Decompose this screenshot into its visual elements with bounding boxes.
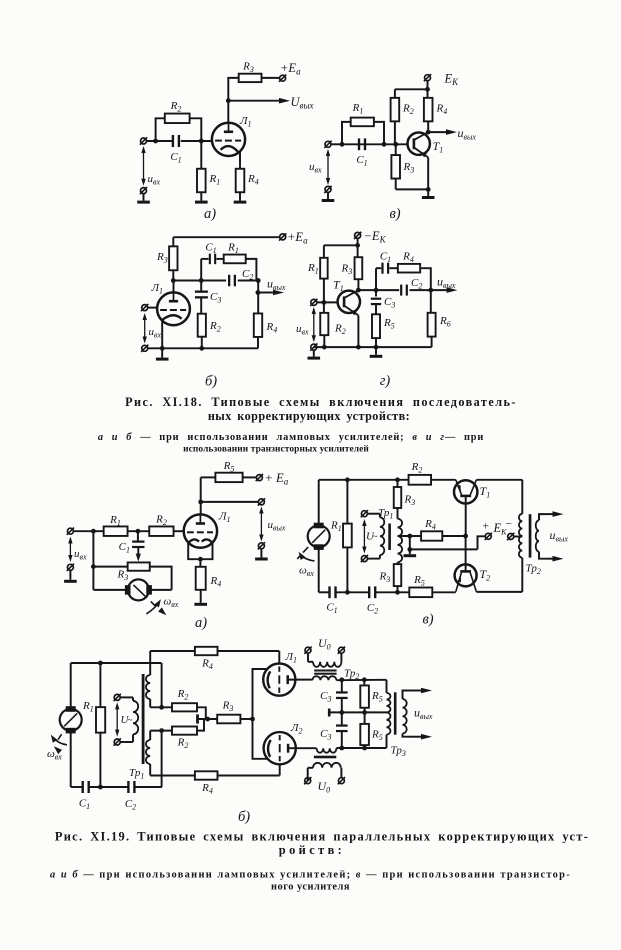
wire C2 to output node xyxy=(238,280,259,282)
node ground rail xyxy=(407,547,412,552)
svg-text:R2: R2 xyxy=(177,737,189,751)
anode lead xyxy=(173,281,175,293)
svg-text:R5: R5 xyxy=(223,460,235,474)
U0 lower winding xyxy=(307,768,309,781)
u_out arrow xyxy=(260,512,262,537)
node R5 upper top xyxy=(362,677,367,682)
L1 grid lead xyxy=(278,651,280,664)
wire C3 to R5 xyxy=(375,305,377,315)
wire C1 to R4 xyxy=(389,267,398,269)
svg-text:R1: R1 xyxy=(227,242,239,256)
capacitor C2 xyxy=(368,586,370,598)
u_in arrow xyxy=(327,154,329,180)
capacitor C1 xyxy=(209,254,211,265)
cathode column up xyxy=(253,669,268,719)
svg-text:+: + xyxy=(483,521,490,533)
wire R2 to grid node xyxy=(190,118,202,141)
wire R3 column top xyxy=(395,144,397,154)
node mid C3 xyxy=(339,710,344,715)
svg-text:T2: T2 xyxy=(480,567,491,583)
resistor R3 xyxy=(217,715,240,724)
resistor R4 xyxy=(421,531,442,540)
resistor R1 xyxy=(197,169,206,193)
node bases xyxy=(463,534,468,539)
output row xyxy=(201,501,259,503)
capacitor C1 xyxy=(172,135,174,147)
wire gen row left xyxy=(93,589,128,591)
wire Ek minus to tap xyxy=(514,536,523,538)
node emitter bottom xyxy=(356,345,361,350)
node collector/output xyxy=(426,130,431,135)
ground mid bottom xyxy=(375,347,377,355)
svg-text:U0: U0 xyxy=(318,779,331,795)
capacitor C3 xyxy=(371,298,381,300)
Tr2 right winding xyxy=(536,520,539,551)
svg-text:R3: R3 xyxy=(341,263,353,277)
wire gen row right xyxy=(149,589,172,591)
cathode column down xyxy=(253,719,268,759)
lower coil row xyxy=(150,730,172,732)
Tr2 core bar xyxy=(529,514,532,557)
wire R3 row right xyxy=(150,567,172,590)
bottom rail seg4 xyxy=(432,591,456,593)
ground under R4 xyxy=(234,201,247,204)
wire top rail down to R1 xyxy=(323,245,325,257)
wire R5 to bottom rail xyxy=(375,338,377,347)
ground under R1 xyxy=(195,201,208,204)
node input/R3 column xyxy=(91,529,96,534)
wire R2 to grid xyxy=(174,530,185,532)
resistor R5 xyxy=(409,588,432,598)
svg-text:б): б) xyxy=(238,809,250,825)
node R3 bottom xyxy=(395,590,400,595)
node R1 bridge left xyxy=(340,142,345,147)
node C1 top xyxy=(136,529,141,534)
generator column top xyxy=(70,663,72,709)
svg-text:Л1: Л1 xyxy=(285,651,297,665)
svg-text:T1: T1 xyxy=(333,278,344,294)
ground under R4 xyxy=(200,590,202,603)
svg-text:R5: R5 xyxy=(371,690,383,704)
Tr1 core bar xyxy=(388,524,391,551)
lower rail to Tr3 xyxy=(336,747,386,749)
svg-text:R2: R2 xyxy=(209,320,221,334)
svg-text:R4: R4 xyxy=(436,103,448,117)
svg-text:г): г) xyxy=(380,373,391,389)
top rail right xyxy=(476,479,522,481)
svg-text:+Eа: +Eа xyxy=(287,230,308,246)
U~ arrow xyxy=(116,707,118,731)
wire C3 upper column xyxy=(341,680,343,692)
wire C3 column xyxy=(200,281,202,292)
capacitor C2 xyxy=(400,285,402,296)
wire grid node to tube grid xyxy=(181,140,212,142)
bottom rail right xyxy=(476,591,522,593)
svg-text:C2: C2 xyxy=(411,277,422,291)
triode U1 (L1) xyxy=(212,123,245,156)
capacitor C2 xyxy=(228,275,230,287)
svg-text:+ Eа: + Eа xyxy=(265,471,289,487)
node R5 bottom xyxy=(374,345,379,350)
wire bridge left up to R2 xyxy=(156,118,165,141)
base bar of T1 xyxy=(343,296,346,307)
wire tap column xyxy=(161,731,163,787)
wire input to node xyxy=(73,530,103,532)
generator (omega in) xyxy=(308,525,330,547)
capacitor C1 xyxy=(328,586,330,598)
bottom R4 row left xyxy=(150,775,195,777)
bottom rail wire xyxy=(396,188,429,190)
svg-text:Тр1: Тр1 xyxy=(129,767,144,781)
cathode lead down xyxy=(161,321,163,348)
wire R4 to bottom rail xyxy=(257,337,259,348)
Tr3 left winding lower xyxy=(387,712,391,734)
resistor R3 xyxy=(239,74,262,82)
node C3 upper top xyxy=(339,677,344,682)
svg-text:uвх: uвх xyxy=(148,173,161,187)
base bar of T1 xyxy=(460,495,471,498)
wire to left winding top xyxy=(120,696,133,698)
svg-text:uвых: uвых xyxy=(267,277,286,293)
node R3 top xyxy=(395,477,400,482)
resistor R5 xyxy=(215,473,242,482)
wire winding bottom to term xyxy=(367,558,380,560)
node anode/output row xyxy=(198,500,203,505)
svg-text:Рис. XI.19. Типовые схемы вклю: Рис. XI.19. Типовые схемы включения пара… xyxy=(55,830,589,844)
svg-text:U0: U0 xyxy=(318,636,331,652)
wire to R5 xyxy=(201,476,216,478)
svg-text:R2: R2 xyxy=(411,461,423,475)
node tap xyxy=(407,534,412,539)
svg-text:~: ~ xyxy=(373,532,378,542)
emitter line of T1 xyxy=(456,480,462,495)
node R1 top xyxy=(98,661,103,666)
input terminal xyxy=(325,141,331,147)
wire C1 up xyxy=(137,531,139,541)
wire input to C1 xyxy=(147,140,172,142)
capacitor C1 xyxy=(132,541,144,543)
resistor R1 xyxy=(343,524,352,548)
svg-text:R4: R4 xyxy=(402,251,414,265)
ground under input xyxy=(143,194,145,201)
svg-text:R1: R1 xyxy=(109,514,121,528)
emitter line of T1 xyxy=(415,148,429,158)
svg-text:T1: T1 xyxy=(433,139,444,155)
node R3 right xyxy=(250,717,255,722)
wire R2 upper to node xyxy=(197,707,206,719)
wire output column xyxy=(257,281,259,314)
wire R1 branch right down xyxy=(246,259,257,281)
svg-text:C3: C3 xyxy=(210,291,221,305)
node output top xyxy=(256,278,261,283)
svg-text:C3: C3 xyxy=(320,728,331,742)
node R2 bottom xyxy=(199,346,204,351)
svg-text:R1: R1 xyxy=(307,262,319,276)
svg-text:Uвых: Uвых xyxy=(291,95,314,111)
dashed rotation arrow xyxy=(303,547,308,553)
svg-text:−: − xyxy=(506,519,513,531)
svg-text:R5: R5 xyxy=(383,317,395,331)
emitter arrowhead T2 xyxy=(457,576,461,582)
capacitor C1 xyxy=(381,263,383,274)
dashed rotation arrow xyxy=(58,734,62,740)
node base/R3 junction xyxy=(393,142,398,147)
resistor R3 lower xyxy=(394,564,402,586)
input lower terminal xyxy=(141,188,147,194)
svg-text:R2: R2 xyxy=(155,514,167,528)
Tr3 right winding xyxy=(403,699,407,734)
generator column top xyxy=(318,480,320,526)
capacitor C3 lower xyxy=(336,724,348,726)
emitter line of T1 xyxy=(345,306,359,315)
Tr3 output bottom xyxy=(403,734,410,737)
wire R6 column xyxy=(430,290,432,313)
wire R1 column bottom xyxy=(346,547,348,592)
wire R1 to node xyxy=(128,530,150,532)
bottom rail seg3 xyxy=(375,591,409,593)
stub bar xyxy=(196,714,199,723)
wire R3 to bottom rail xyxy=(395,179,397,189)
wire R1 to base node xyxy=(323,279,325,303)
svg-text:Тр2: Тр2 xyxy=(526,563,541,577)
node R5 lower bottom xyxy=(362,746,367,751)
Tr2 anode winding xyxy=(312,676,336,680)
resistor R1 xyxy=(104,526,128,536)
output lower terminal xyxy=(258,543,264,549)
Tr1 upper terminal xyxy=(114,694,120,700)
wire R5 to +Ea xyxy=(243,476,257,478)
resistor R1 xyxy=(320,258,328,279)
resistor R3 xyxy=(128,562,150,570)
svg-text:~: ~ xyxy=(128,715,133,725)
wire C3 column xyxy=(375,290,377,296)
svg-text:C1: C1 xyxy=(205,242,216,256)
Tr3 output top xyxy=(403,691,410,700)
node cathode bottom xyxy=(198,557,203,562)
cathode arc of L1 xyxy=(162,315,181,320)
svg-text:uвых: uвых xyxy=(414,706,433,722)
node output xyxy=(428,288,433,293)
bottom R4 row right xyxy=(218,775,280,777)
resistor R5 upper xyxy=(360,685,369,707)
input terminal xyxy=(67,528,73,534)
wire input to base node xyxy=(317,301,338,303)
node lower coil tap xyxy=(159,728,164,733)
resistor R5 xyxy=(372,314,380,338)
input lower terminal xyxy=(142,345,148,351)
svg-text:Л1: Л1 xyxy=(239,115,251,129)
terminal Ek minus xyxy=(508,534,514,540)
svg-text:C1: C1 xyxy=(380,251,391,265)
svg-text:Тр2: Тр2 xyxy=(344,668,359,682)
input lower terminal xyxy=(311,344,317,350)
resistor R4 bottom xyxy=(195,771,218,779)
emitter arrowhead xyxy=(350,309,357,315)
dashed rotation arrow xyxy=(151,601,156,606)
Tr2b anode winding xyxy=(317,748,337,753)
triode L1 xyxy=(157,292,190,325)
wire R4 column xyxy=(427,89,429,98)
wire term to winding top xyxy=(367,513,380,515)
top rail left xyxy=(319,479,409,481)
transformer Tr1 lower terminal xyxy=(361,556,367,562)
wire C3 upper to mid rail xyxy=(341,699,343,713)
wire C3 lower column xyxy=(341,712,343,724)
collector line of T1 xyxy=(345,290,359,298)
Tr3 left winding upper xyxy=(386,680,388,693)
wire C3 to R2 xyxy=(200,298,202,314)
wire R3 lower to bottom rail xyxy=(397,586,399,592)
wire left winding bottom xyxy=(120,741,133,743)
u_in arrow xyxy=(143,151,145,181)
input lower terminal xyxy=(67,564,73,570)
generator column bottom xyxy=(70,731,72,787)
top R4 row right xyxy=(218,650,280,652)
terminal +Ea xyxy=(280,234,286,240)
node emitter/ground xyxy=(426,187,431,192)
resistor R4 xyxy=(424,98,433,122)
svg-text:uвых: uвых xyxy=(458,126,477,142)
emitter wire down xyxy=(427,158,429,190)
output arrow u_out xyxy=(258,292,275,294)
wire R3 to +Ea terminal xyxy=(262,77,280,79)
wire to C1 xyxy=(201,258,208,260)
U0 upper left terminal xyxy=(305,647,311,653)
wire R4 to base node xyxy=(442,535,465,537)
Tr1 right winding upper xyxy=(149,651,151,675)
svg-text:R5: R5 xyxy=(371,729,383,743)
ground under input xyxy=(69,570,71,580)
emitter arrowhead T1 xyxy=(457,485,461,491)
capacitor C1 xyxy=(358,138,360,150)
rotation arc xyxy=(146,602,159,614)
svg-text:R1: R1 xyxy=(209,173,221,187)
grid wire xyxy=(148,307,158,309)
wire R3 column xyxy=(357,245,359,257)
node C1R1 left xyxy=(199,278,204,283)
Tr2 left winding upper xyxy=(521,480,523,514)
wire R3 to winding xyxy=(397,508,399,519)
resistor R3 upper xyxy=(394,487,402,508)
svg-text:R2: R2 xyxy=(170,100,182,114)
collector line of T1 xyxy=(470,480,476,495)
wire R2 lower to node xyxy=(197,719,204,731)
wire R1 column top xyxy=(346,480,348,524)
Tr1 core bar xyxy=(142,674,145,764)
svg-text:R4: R4 xyxy=(266,321,278,335)
wire top rail down to R3 xyxy=(172,237,174,246)
resistor R2 xyxy=(149,526,173,536)
L1 anode wire xyxy=(288,679,313,681)
bottom wire seg3 xyxy=(135,786,162,788)
svg-text:R3: R3 xyxy=(379,571,391,585)
wire Ek plus stub xyxy=(478,536,486,549)
U0 lower right terminal xyxy=(338,778,344,784)
svg-text:uвх: uвх xyxy=(149,326,162,340)
wire left column xyxy=(92,531,94,590)
Tr2 core bars xyxy=(314,670,336,672)
wire R5 lower column xyxy=(364,712,366,724)
output top wire xyxy=(539,514,549,520)
transistor T1 xyxy=(338,291,360,313)
resistor R1 xyxy=(96,707,105,733)
transformer Tr1 upper terminal xyxy=(361,511,367,517)
resistor R1 xyxy=(351,118,374,127)
base bar of T1 xyxy=(413,138,416,149)
anode row to Tr3 xyxy=(336,679,386,681)
node output arrow xyxy=(256,290,261,295)
U~ arrow xyxy=(363,524,365,549)
Tr1 right winding xyxy=(398,519,403,563)
resistor R2 xyxy=(198,314,206,337)
wire R3 right xyxy=(240,718,252,720)
svg-text:R4: R4 xyxy=(247,173,259,187)
svg-text:R4: R4 xyxy=(201,782,213,796)
wire R3 column top xyxy=(397,480,399,487)
bottom wire seg2 xyxy=(89,786,128,788)
wire -Ek down xyxy=(357,238,359,245)
svg-text:R2: R2 xyxy=(402,103,414,117)
output arrow U_out xyxy=(228,100,281,102)
terminal Ek xyxy=(425,75,431,81)
node collector/output row xyxy=(356,288,361,293)
node R1 bottom xyxy=(345,590,350,595)
caption Fig XI.18 xyxy=(98,395,517,455)
node mid R5 xyxy=(362,710,367,715)
node C3 lower bottom xyxy=(339,746,344,751)
node left/R3 row xyxy=(91,564,96,569)
wire anode node up to R3 xyxy=(228,78,238,101)
anode row wire xyxy=(173,280,226,282)
Tr3 core bar xyxy=(394,692,397,734)
ground under input xyxy=(327,193,329,199)
emitter line of T2 xyxy=(456,573,462,592)
resistor R4 top xyxy=(195,647,218,655)
L2 anode bar xyxy=(287,744,290,753)
svg-text:C1: C1 xyxy=(79,798,90,812)
svg-text:а и б — при использовании ламп: а и б — при использовании ламповых усили… xyxy=(50,870,571,881)
node grid junction xyxy=(199,139,204,144)
svg-text:R1: R1 xyxy=(82,700,94,714)
L2 grid dashes xyxy=(279,735,281,740)
wire R5 upper to mid rail xyxy=(364,708,366,713)
bottom rail left xyxy=(319,591,330,593)
svg-text:R1: R1 xyxy=(330,520,342,534)
svg-text:−EК: −EК xyxy=(364,229,387,245)
svg-text:Л1: Л1 xyxy=(151,282,163,296)
ground bottom rail xyxy=(161,348,163,357)
Tr1 right winding lower xyxy=(149,731,151,740)
L1 cathode arc xyxy=(268,671,271,688)
wire R2 column xyxy=(323,302,325,312)
svg-text:EК: EК xyxy=(444,72,460,88)
top rail xyxy=(395,88,428,90)
collector line of T2 xyxy=(470,573,476,592)
upper coil row xyxy=(150,706,172,708)
svg-text:uвых: uвых xyxy=(437,275,456,291)
node upper coil tap xyxy=(159,705,164,710)
capacitor C3 upper xyxy=(336,691,348,693)
wire R5 lower to bottom rail xyxy=(364,745,366,748)
svg-text:C1: C1 xyxy=(119,541,130,555)
wire R3 row left xyxy=(93,566,127,568)
svg-text:а и б — при использовании ламп: а и б — при использовании ламповых усили… xyxy=(98,432,484,443)
capacitor C1 xyxy=(82,781,84,793)
capacitor C2 xyxy=(127,781,129,793)
wire bridge right down xyxy=(374,122,384,144)
wire R2 to bottom rail xyxy=(323,335,325,347)
wire right column down xyxy=(161,663,163,707)
